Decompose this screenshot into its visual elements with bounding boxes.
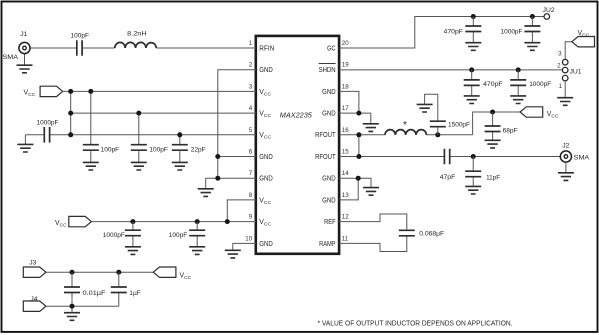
svg-text:3: 3 (249, 83, 253, 90)
svg-text:470pF: 470pF (483, 81, 503, 88)
capacitor 0.068uF (399, 230, 415, 236)
svg-text:16: 16 (342, 127, 349, 134)
ground J1 (17, 65, 33, 73)
wire JU1 pin1 to ground (564, 81, 566, 98)
op-amp U1 MAX2235 body (256, 36, 339, 254)
svg-text:0.01µF: 0.01µF (83, 290, 106, 297)
capacitor 68pF (492, 112, 494, 140)
connector J4 (23, 301, 46, 311)
svg-text:GC: GC (327, 45, 336, 52)
svg-text:* VALUE OF OUTPUT INDUCTOR DEP: * VALUE OF OUTPUT INDUCTOR DEPENDS ON AP… (318, 318, 513, 327)
svg-text:9: 9 (249, 214, 253, 221)
capacitor 470pF (GC) (472, 17, 474, 43)
svg-text:10: 10 (245, 235, 252, 242)
ground pin7 (198, 189, 214, 197)
capacitor 1500pF (425, 94, 438, 135)
wire SHDN net pin 19 (339, 69, 562, 71)
svg-text:17: 17 (342, 105, 349, 112)
svg-text:SHDN: SHDN (319, 67, 336, 74)
wire GND pins 14,13 (339, 178, 371, 200)
capacitor 100pF shunt B (131, 145, 147, 151)
svg-text:*: * (403, 120, 407, 131)
svg-text:J1: J1 (20, 31, 27, 38)
svg-text:47pF: 47pF (440, 174, 456, 181)
svg-text:100pF: 100pF (149, 147, 168, 154)
svg-text:11: 11 (342, 235, 349, 242)
ground left 1000pF (17, 144, 33, 152)
node VCC flag (row 9) (69, 216, 92, 226)
svg-text:18: 18 (342, 83, 349, 90)
node VCC flag (rows 3-5) (40, 86, 63, 96)
wire GND pins 18,17 (339, 91, 371, 123)
ground pins 17/18 (363, 124, 379, 132)
svg-text:1000pF: 1000pF (37, 120, 59, 127)
wire VCC net rows 3-5 (25, 91, 256, 144)
svg-text:J3: J3 (29, 259, 36, 266)
svg-text:GND: GND (259, 67, 273, 74)
connector JU1 (562, 59, 568, 65)
svg-text:GND: GND (259, 176, 273, 183)
capacitor 1000pF (row 9) (132, 222, 134, 247)
ground 1500pF (417, 104, 433, 112)
node VCC flag (J3 row) (153, 267, 176, 277)
svg-text:1000pF: 1000pF (103, 232, 125, 239)
svg-text:15: 15 (342, 149, 349, 156)
node junction pin6 (215, 154, 220, 159)
svg-text:100pF: 100pF (169, 232, 188, 239)
svg-text:2: 2 (249, 62, 253, 69)
svg-text:RFIN: RFIN (259, 45, 274, 52)
svg-text:7: 7 (249, 170, 253, 177)
connector JU2 (544, 14, 550, 20)
svg-text:8: 8 (249, 192, 253, 199)
svg-text:SMA: SMA (3, 54, 19, 61)
capacitor 1000pF (SHDN) (517, 70, 519, 96)
wire JU1 pin3 to VCC (565, 42, 572, 60)
svg-text:12: 12 (342, 214, 349, 221)
wire VCC net row 9 and pin 8 (91, 200, 256, 222)
svg-text:J4: J4 (30, 296, 37, 303)
svg-text:19: 19 (342, 62, 349, 69)
svg-text:JU1: JU1 (570, 68, 582, 75)
svg-text:1µF: 1µF (129, 290, 141, 297)
svg-text:1: 1 (249, 40, 253, 47)
capacitor 11pF (472, 157, 474, 187)
capacitor 100pF shunt A (83, 145, 99, 151)
svg-text:100pF: 100pF (101, 147, 120, 154)
node VCC flag (JU1) (572, 37, 595, 47)
ground J3/J4 (64, 313, 80, 321)
svg-text:22pF: 22pF (191, 147, 206, 154)
svg-text:8.2nH: 8.2nH (127, 31, 147, 38)
wire GC net pin 20 (339, 17, 544, 49)
svg-text:GND: GND (322, 176, 336, 183)
svg-text:RFOUT: RFOUT (315, 132, 336, 139)
svg-text:SMA: SMA (574, 154, 590, 161)
svg-text:1500pF: 1500pF (448, 121, 470, 128)
wire J4 rail (46, 306, 119, 313)
svg-text:GND: GND (259, 154, 273, 161)
wire RFIN net (25, 48, 257, 65)
svg-text:1000pF: 1000pF (501, 29, 523, 36)
capacitor 100pF (series input) (77, 40, 82, 56)
svg-text:REF: REF (324, 219, 336, 226)
svg-text:MAX2235: MAX2235 (280, 112, 312, 119)
svg-text:3: 3 (558, 50, 562, 57)
node junction pin7 (215, 176, 220, 181)
capacitor 1000pF (left series) (44, 127, 49, 143)
ground pins 13/14 (363, 188, 379, 196)
ground J2 (565, 162, 567, 173)
svg-text:470pF: 470pF (444, 29, 464, 36)
svg-text:J2: J2 (562, 142, 569, 149)
svg-text:14: 14 (342, 170, 349, 177)
capacitor 22pF shunt (172, 145, 188, 151)
wire J3 rail (46, 271, 153, 273)
connector J3 (23, 267, 46, 277)
inductor L (output, value per note) (385, 130, 426, 135)
svg-text:2: 2 (557, 63, 561, 70)
capacitor 47pF (series output) (444, 149, 449, 165)
svg-text:JU2: JU2 (543, 7, 555, 14)
svg-text:GND: GND (322, 89, 336, 96)
svg-text:1: 1 (559, 83, 563, 90)
ground JU1 (557, 98, 573, 106)
wire GND pin 10 (233, 243, 256, 250)
connector J2 (560, 151, 571, 162)
svg-text:RAMP: RAMP (319, 241, 336, 248)
svg-text:1000pF: 1000pF (529, 81, 551, 88)
svg-text:RFOUT: RFOUT (315, 154, 336, 161)
inductor 8.2nH (115, 42, 157, 48)
svg-text:13: 13 (342, 192, 349, 199)
svg-text:GND: GND (322, 111, 336, 118)
wire GND net pins 2,6,7 (206, 70, 256, 189)
svg-text:100pF: 100pF (70, 32, 89, 39)
svg-text:68pF: 68pF (503, 128, 518, 135)
capacitor 100pF (row 9) (196, 222, 198, 247)
svg-text:GND: GND (322, 197, 336, 204)
capacitor 0.01uF (71, 272, 73, 306)
svg-text:20: 20 (342, 40, 349, 47)
svg-text:5: 5 (249, 127, 253, 134)
wire REF/RAMP net pins 12,11 (339, 214, 407, 252)
svg-text:6: 6 (249, 149, 253, 156)
node VCC flag (RFOUT) (520, 107, 543, 117)
svg-text:GND: GND (259, 241, 273, 248)
capacitor 470pF (SHDN) (471, 70, 473, 96)
capacitor 1000pF (GC) (531, 17, 533, 43)
svg-text:0.068µF: 0.068µF (419, 231, 444, 238)
capacitor 1uF (118, 272, 120, 306)
svg-text:11pF: 11pF (486, 175, 500, 182)
svg-text:4: 4 (249, 105, 253, 112)
wire RFOUT net pins 16,15 (339, 112, 560, 157)
connector J1 (19, 42, 30, 53)
